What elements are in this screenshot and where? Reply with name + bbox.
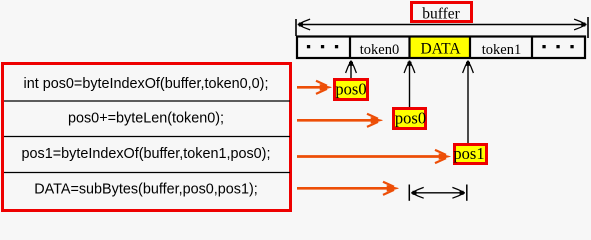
- orange arrow 1: [297, 86, 322, 89]
- divider line 3: [4, 172, 290, 174]
- up arrow from pos1 box: [467, 61, 469, 143]
- pos0 box 1: [335, 80, 368, 100]
- span double arrow over buffer: [300, 24, 584, 26]
- svg-text:token0: token0: [360, 42, 399, 58]
- left dots: [307, 45, 338, 48]
- cell divider 3: [469, 36, 471, 58]
- svg-text:DATA=subBytes(buffer,pos0,pos1: DATA=subBytes(buffer,pos0,pos1);: [34, 182, 258, 198]
- cell divider 4: [531, 36, 533, 58]
- DATA width marker left bar: [408, 185, 410, 201]
- svg-text:int pos0=byteIndexOf(buffer,to: int pos0=byteIndexOf(buffer,token0,0);: [24, 76, 269, 92]
- svg-text:pos0+=byteLen(token0);: pos0+=byteLen(token0);: [68, 111, 224, 127]
- DATA cell yellow fill: [410, 37, 469, 58]
- left terminator line: [295, 19, 297, 36]
- orange arrow 3: [297, 155, 440, 158]
- cell divider 2: [408, 36, 410, 58]
- buffer bar outline: [297, 37, 585, 59]
- up arrow from pos0 box 1: [350, 61, 352, 78]
- right terminator line: [587, 17, 589, 38]
- code box: [3, 64, 291, 211]
- divider line 1: [4, 100, 290, 102]
- buffer label box: [412, 3, 472, 22]
- DATA width marker right bar: [466, 185, 468, 201]
- svg-text:token1: token1: [482, 42, 521, 58]
- pos1 box: [455, 145, 487, 164]
- cell divider 1: [349, 36, 351, 58]
- svg-text:pos0: pos0: [335, 80, 366, 99]
- svg-text:pos1=byteIndexOf(buffer,token1: pos1=byteIndexOf(buffer,token1,pos0);: [22, 146, 271, 162]
- up arrow from pos0 box 2: [409, 61, 411, 107]
- svg-text:pos0: pos0: [395, 109, 426, 128]
- svg-text:buffer: buffer: [422, 6, 460, 23]
- orange arrow 2: [297, 119, 372, 122]
- svg-text:DATA: DATA: [420, 40, 461, 57]
- svg-text:pos1: pos1: [453, 144, 484, 163]
- orange arrow 4: [297, 187, 388, 190]
- DATA width double arrow: [412, 192, 465, 194]
- right dots: [542, 45, 573, 48]
- divider line 2: [4, 136, 290, 138]
- pos0 box 2: [394, 109, 426, 129]
